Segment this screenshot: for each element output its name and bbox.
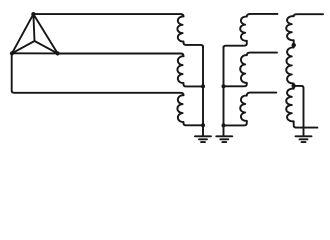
ground 2 bar1 [216, 135, 232, 137]
junction bus1-P2 [201, 84, 205, 88]
wire phase B [58, 54, 184, 57]
ground 1 bar2 [199, 138, 207, 140]
wire neutral tap [294, 86, 304, 136]
winding T2 [286, 45, 294, 86]
delta spoke centre-BL [12, 41, 35, 53]
junction bus2-S2 [222, 84, 226, 88]
winding P2 [177, 56, 203, 86]
junction bus1-P3 [201, 123, 205, 127]
ground 3 bar3 [302, 141, 306, 143]
winding S3 [224, 93, 277, 126]
winding P1 [177, 16, 203, 47]
winding S1 [224, 14, 278, 48]
delta edge bottom [12, 52, 58, 54]
winding T1 [286, 16, 294, 45]
ground 2 bar3 [222, 141, 226, 143]
winding T3 [286, 86, 317, 128]
delta edge apex-BR [33, 14, 57, 53]
wire phase C [12, 53, 184, 95]
junction bus2-S3 [222, 123, 226, 127]
ground 1 bar1 [195, 135, 211, 137]
junction T1-T2 [292, 43, 296, 47]
ground 2 bar2 [220, 138, 228, 140]
wire phase A [33, 14, 183, 16]
wire tertiary top lead [294, 14, 323, 16]
delta edge apex-BL [12, 14, 33, 53]
ground 3 bar2 [300, 138, 308, 140]
wire neutral bus 1 [202, 46, 204, 136]
node BL [10, 51, 14, 55]
ground 1 bar3 [201, 141, 205, 143]
ground 3 bar1 [296, 135, 312, 137]
node BR [56, 51, 60, 55]
winding S2 [224, 53, 278, 87]
node apex [31, 12, 35, 16]
junction T2-T3 [292, 84, 296, 88]
delta spoke centre-apex [33, 14, 34, 41]
winding P3 [177, 95, 203, 125]
delta spoke centre-BR [35, 41, 58, 53]
wire neutral bus 2 [223, 47, 225, 136]
